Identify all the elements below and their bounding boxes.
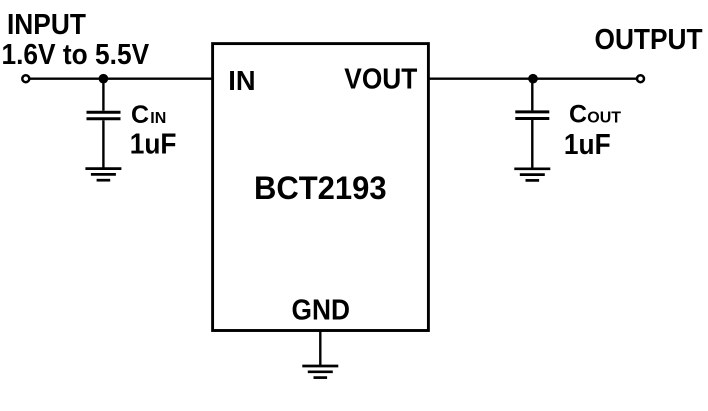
label OUTPUT	[595, 23, 703, 55]
wire output rail	[428, 77, 640, 79]
label 1.6V to 5.5V	[2, 38, 150, 70]
ground COUT	[514, 169, 550, 181]
wire CIN bottom	[102, 120, 104, 168]
wire COUT top	[531, 79, 533, 111]
svg-text:INPUT: INPUT	[7, 8, 86, 40]
value CIN 1uF	[130, 127, 177, 159]
IC U1 BCT2193 box	[213, 44, 429, 331]
ground GND	[302, 366, 338, 378]
svg-text:IN: IN	[150, 110, 166, 127]
wire CIN top	[102, 79, 104, 111]
label INPUT	[7, 8, 86, 40]
wire COUT bottom	[531, 120, 533, 169]
input terminal	[22, 75, 29, 82]
svg-text:OUT: OUT	[587, 110, 621, 127]
label CIN	[131, 101, 166, 129]
label COUT	[569, 101, 621, 129]
output terminal	[637, 75, 644, 82]
wire input rail	[26, 77, 213, 79]
ground CIN	[85, 169, 121, 181]
svg-text:C: C	[569, 101, 587, 129]
node input junction	[99, 74, 109, 84]
node output junction	[528, 74, 538, 84]
svg-text:IN: IN	[228, 65, 255, 96]
svg-text:1uF: 1uF	[564, 128, 611, 160]
svg-text:BCT2193: BCT2193	[254, 169, 387, 206]
capacitor CIN	[87, 112, 121, 119]
svg-text:C: C	[131, 101, 149, 129]
pin label IN	[228, 65, 255, 96]
svg-text:GND: GND	[292, 293, 350, 325]
svg-text:1.6V to 5.5V: 1.6V to 5.5V	[2, 38, 150, 70]
wire GND pin	[319, 331, 321, 367]
pin label GND	[292, 293, 350, 325]
svg-text:1uF: 1uF	[130, 127, 177, 159]
capacitor COUT	[515, 112, 549, 119]
svg-text:VOUT: VOUT	[344, 63, 417, 95]
svg-text:OUTPUT: OUTPUT	[595, 23, 703, 55]
value COUT 1uF	[564, 128, 611, 160]
pin label VOUT	[344, 63, 417, 95]
IC name BCT2193	[254, 169, 387, 206]
